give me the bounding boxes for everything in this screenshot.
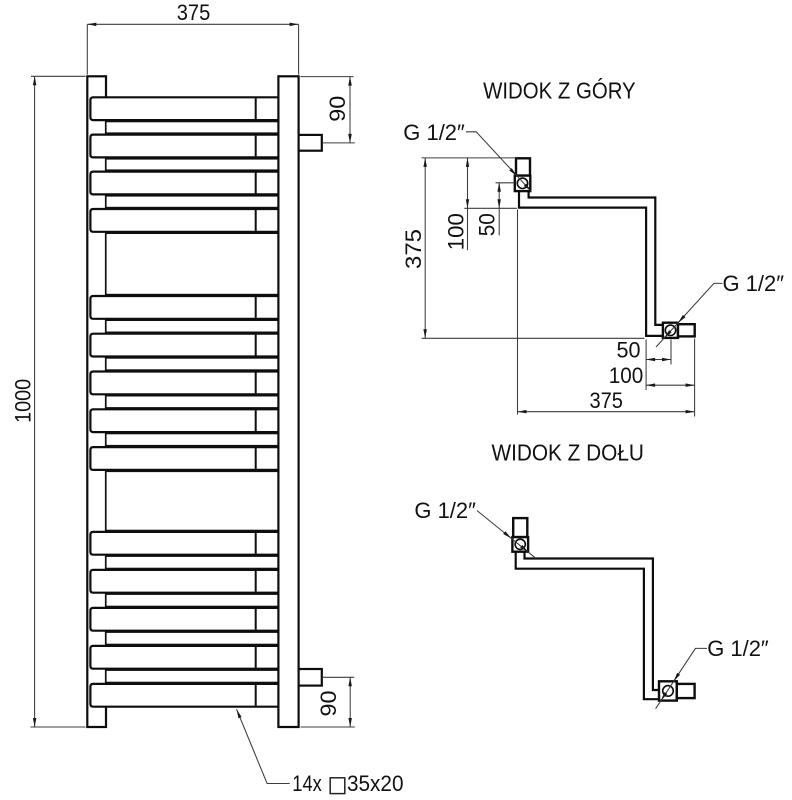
svg-text:35x20: 35x20 xyxy=(347,771,404,796)
rung 12 (35x20 profile) xyxy=(90,608,280,631)
dimension 90 bottom-right: dimension line with arrows xyxy=(348,677,352,727)
dimension 375 top: extension lines xyxy=(87,24,298,74)
top view: leader to right valve xyxy=(656,283,722,347)
svg-text:375: 375 xyxy=(401,229,426,269)
top view dim 50 horizontal: dimension line xyxy=(646,358,671,361)
bottom view: left valve body xyxy=(512,537,528,552)
svg-text:50: 50 xyxy=(475,213,500,236)
rung 5 (35x20 profile) xyxy=(90,296,280,319)
bottom view: left valve circle xyxy=(515,539,525,549)
rung 11 (35x20 profile) xyxy=(90,570,280,593)
rung 1 (35x20 profile) xyxy=(90,97,280,120)
rung 10 (35x20 profile) xyxy=(90,532,280,555)
svg-text:G 1/2″: G 1/2″ xyxy=(403,120,465,145)
svg-text:14x: 14x xyxy=(292,771,322,796)
rung 6 (35x20 profile) xyxy=(90,334,280,357)
svg-text:WIDOK Z DOŁU: WIDOK Z DOŁU xyxy=(491,439,644,465)
top view dim 50 vertical: dimension line xyxy=(497,183,501,236)
rung 2 (35x20 profile) xyxy=(90,135,280,158)
inner web bands between rungs xyxy=(106,122,279,683)
label 14x square 35x20 xyxy=(292,771,403,796)
top view: left valve circle xyxy=(517,178,527,188)
top view: collector pipe outline (Z-shape) xyxy=(519,191,663,336)
top view dim 375 vertical: extension lines xyxy=(422,158,645,338)
svg-text:90: 90 xyxy=(316,691,341,717)
dimension 375 top: dimension line with arrows xyxy=(87,23,298,27)
dimension 90 top-right: dimension line with arrows xyxy=(348,77,352,143)
leader line for rung count callout xyxy=(237,709,290,783)
svg-text:90: 90 xyxy=(325,96,350,122)
dimension 90 top-right: extension lines xyxy=(301,77,355,143)
bottom view: right valve circle xyxy=(663,686,674,697)
svg-text:375: 375 xyxy=(177,0,211,25)
top view: left valve stub pipe xyxy=(516,158,530,175)
top connection tab xyxy=(299,135,322,151)
rung 7 (35x20 profile) xyxy=(90,372,280,395)
top view dim 50: extension line at valve centre xyxy=(496,182,515,184)
rung 4 (35x20 profile) xyxy=(90,209,280,232)
bottom connection tab xyxy=(299,669,322,686)
rung 9 (35x20 profile) xyxy=(90,447,280,470)
left collector rail xyxy=(87,76,106,727)
svg-text:375: 375 xyxy=(589,388,623,413)
top view: right valve outlet stub xyxy=(678,324,695,336)
svg-text:100: 100 xyxy=(444,213,469,250)
top view dim 375 horizontal: dimension line xyxy=(518,410,695,414)
top view dim 375 vertical: dimension line xyxy=(423,158,427,338)
top view dim 100: extension line at pipe bottom xyxy=(464,207,517,209)
rung 14 (35x20 profile) xyxy=(90,684,280,707)
bottom view: left valve stub pipe xyxy=(513,518,527,537)
right collector rail xyxy=(278,76,298,727)
dimension 1000 left: extension lines xyxy=(31,76,86,727)
bottom view: right valve body xyxy=(659,681,677,700)
top view: leader to left valve xyxy=(466,132,531,192)
top view: right valve body xyxy=(663,323,678,338)
rung 8 (35x20 profile) xyxy=(90,409,280,432)
top view: right valve circle xyxy=(665,325,675,335)
svg-text:WIDOK Z GÓRY: WIDOK Z GÓRY xyxy=(483,77,636,103)
bottom view: collector pipe outline (Z-shape) xyxy=(516,552,659,700)
svg-text:G 1/2″: G 1/2″ xyxy=(723,271,785,296)
svg-text:1000: 1000 xyxy=(11,379,36,423)
svg-text:50: 50 xyxy=(617,337,641,362)
top view: left valve body xyxy=(515,176,531,192)
bottom view: leader to right valve xyxy=(656,648,707,708)
dimension 90 bottom-right: extension lines xyxy=(301,677,355,727)
top view dim 100 horizontal: dimension line xyxy=(646,383,695,387)
dimension 1000 left: dimension line with arrows xyxy=(33,76,37,727)
top view dim 100 vertical: dimension line xyxy=(466,158,469,250)
rung 13 (35x20 profile) xyxy=(90,646,280,669)
bottom view: right valve outlet stub xyxy=(677,684,695,698)
bottom view: leader to left valve xyxy=(477,511,536,559)
svg-text:G 1/2″: G 1/2″ xyxy=(707,636,769,661)
top view bottom dims: extension lines xyxy=(518,210,695,417)
svg-text:100: 100 xyxy=(609,363,644,388)
rung 3 (35x20 profile) xyxy=(90,172,280,195)
svg-text:G 1/2″: G 1/2″ xyxy=(414,498,476,523)
